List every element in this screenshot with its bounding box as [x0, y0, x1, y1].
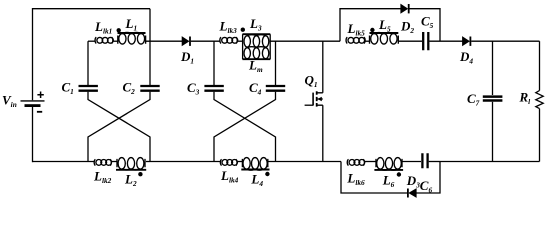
battery minus sign: [37, 111, 42, 113]
inductor L4 core bar: [241, 169, 269, 171]
wire top rail stage1: [33, 8, 151, 10]
wire C6 to rail: [429, 161, 440, 163]
wire right edge bottom: [539, 109, 541, 162]
capacitor C7: [483, 97, 503, 101]
inductor L4 coil: [243, 158, 250, 170]
wire C3 branch top lead: [213, 41, 215, 85]
diode D1 triangle: [182, 37, 189, 46]
wire C5 to D4: [429, 40, 462, 42]
wire C7 bottom lead: [492, 102, 494, 162]
transistor Q1 gate bar: [312, 93, 314, 106]
wire corner into Llk1: [88, 40, 95, 42]
inductor Llk1: [97, 37, 103, 43]
inductor Llk5: [348, 37, 354, 43]
wire Llk6 to L6: [365, 161, 377, 163]
battery V1 (Vin) bottom plate: [25, 104, 41, 107]
capacitor C2: [140, 86, 159, 91]
wire bottom rail segment 2: [150, 161, 220, 163]
wire C2 bottom lead + diagonal to left + vertical: [88, 92, 150, 162]
wire D4 to right corner: [471, 40, 539, 42]
diode D2 triangle: [401, 4, 408, 13]
polarity dot L3: [241, 28, 245, 32]
inductor Llk3: [222, 37, 228, 43]
transformer L3/Lm top core bar: [243, 33, 271, 35]
wire stub Llk4 to L4: [237, 161, 243, 163]
wire bottom rail segment 4: [440, 161, 540, 163]
wire D1 to stage2: [191, 40, 220, 42]
wire left vertical top: [32, 8, 34, 100]
wire top edge right part + right vertical: [410, 9, 441, 42]
inductor L2 core bar: [116, 169, 146, 171]
inductor L6 core bar: [374, 169, 403, 171]
battery V1 (Vin) top plate: [21, 100, 45, 102]
capacitor C3: [204, 86, 223, 91]
transistor Q1 source vertical: [322, 105, 324, 161]
inductor L1 coil: [119, 34, 126, 45]
wire C7 top lead: [492, 41, 494, 95]
wire stub Llk1 to L1: [113, 40, 118, 42]
resistor Rl zigzag: [536, 91, 543, 109]
inductor Llk4: [222, 160, 228, 166]
wire bottom rail segment 3: [267, 161, 341, 163]
wire stub L2 to junction: [146, 161, 150, 163]
transistor Q1 stubs: [317, 93, 323, 105]
wire L1 to D1: [146, 40, 183, 42]
wire stub Llk2 to L2: [111, 161, 118, 163]
transistor Q1 body arrow: [317, 97, 321, 102]
diode D1 bar: [189, 37, 191, 46]
diode D4 triangle: [463, 37, 470, 46]
capacitor C6: [422, 153, 427, 168]
transformer Lm bottom row loops: [244, 48, 250, 59]
inductor L1 core bar: [118, 32, 146, 34]
inductor L2 coil: [118, 158, 125, 170]
capacitor C4: [266, 86, 285, 91]
wire bottom loop (D3 branch) left vertical + bottom edge: [341, 162, 408, 194]
wire vertical from top rail through node to C2: [149, 9, 151, 85]
diode D3 bar: [407, 189, 409, 198]
transformer L3 top row loops: [244, 36, 250, 47]
wire L6 to C6: [402, 161, 421, 163]
wire C3 bottom lead + diagonal + vertical: [214, 92, 276, 162]
wire C4 bottom lead + diagonal + vertical: [214, 92, 276, 162]
wire box to C4 node to Q1 node to loop: [270, 40, 340, 42]
diode D3 triangle: [409, 189, 416, 197]
transformer L3/Lm bottom core bar: [243, 58, 271, 60]
inductor L6 coil: [377, 158, 384, 170]
wire left vertical bottom: [32, 107, 34, 162]
capacitor C5: [423, 32, 428, 50]
polarity dot L1: [117, 28, 121, 32]
wire C1 branch top lead: [87, 41, 89, 85]
diode D2 bar: [408, 4, 410, 13]
wire bottom edge right part + right vertical: [416, 162, 440, 194]
capacitor C1: [79, 86, 98, 91]
wire Llk3 to transformer box: [237, 40, 242, 42]
wire Llk5 to L5: [365, 40, 370, 42]
inductor L5 coil: [371, 34, 378, 45]
wire C4 top lead: [275, 41, 277, 85]
inductor Llk6: [349, 160, 355, 166]
wire C1 bottom lead + diagonal to right + vertical: [88, 92, 150, 162]
transistor Q1 channel segments: [316, 91, 318, 106]
transistor Q1 drain vertical: [322, 41, 324, 93]
diode D4 bar: [469, 37, 471, 46]
wire right edge top: [539, 41, 541, 90]
polarity dot L5: [370, 28, 374, 32]
wire bottom rail segment 1: [33, 161, 95, 163]
transistor Q1 gate lead: [305, 104, 314, 106]
inductor L5 core bar: [370, 32, 399, 34]
inductor Llk2: [96, 160, 102, 166]
polarity dot L4: [265, 172, 269, 176]
transformer box side walls: [243, 34, 271, 59]
wire L5 to C5: [398, 40, 422, 42]
polarity dot L6: [397, 172, 401, 176]
battery plus sign: [37, 92, 43, 99]
wire top loop (D2 branch) left vertical + top edge left part: [340, 9, 401, 42]
polarity dot L2: [138, 172, 142, 176]
